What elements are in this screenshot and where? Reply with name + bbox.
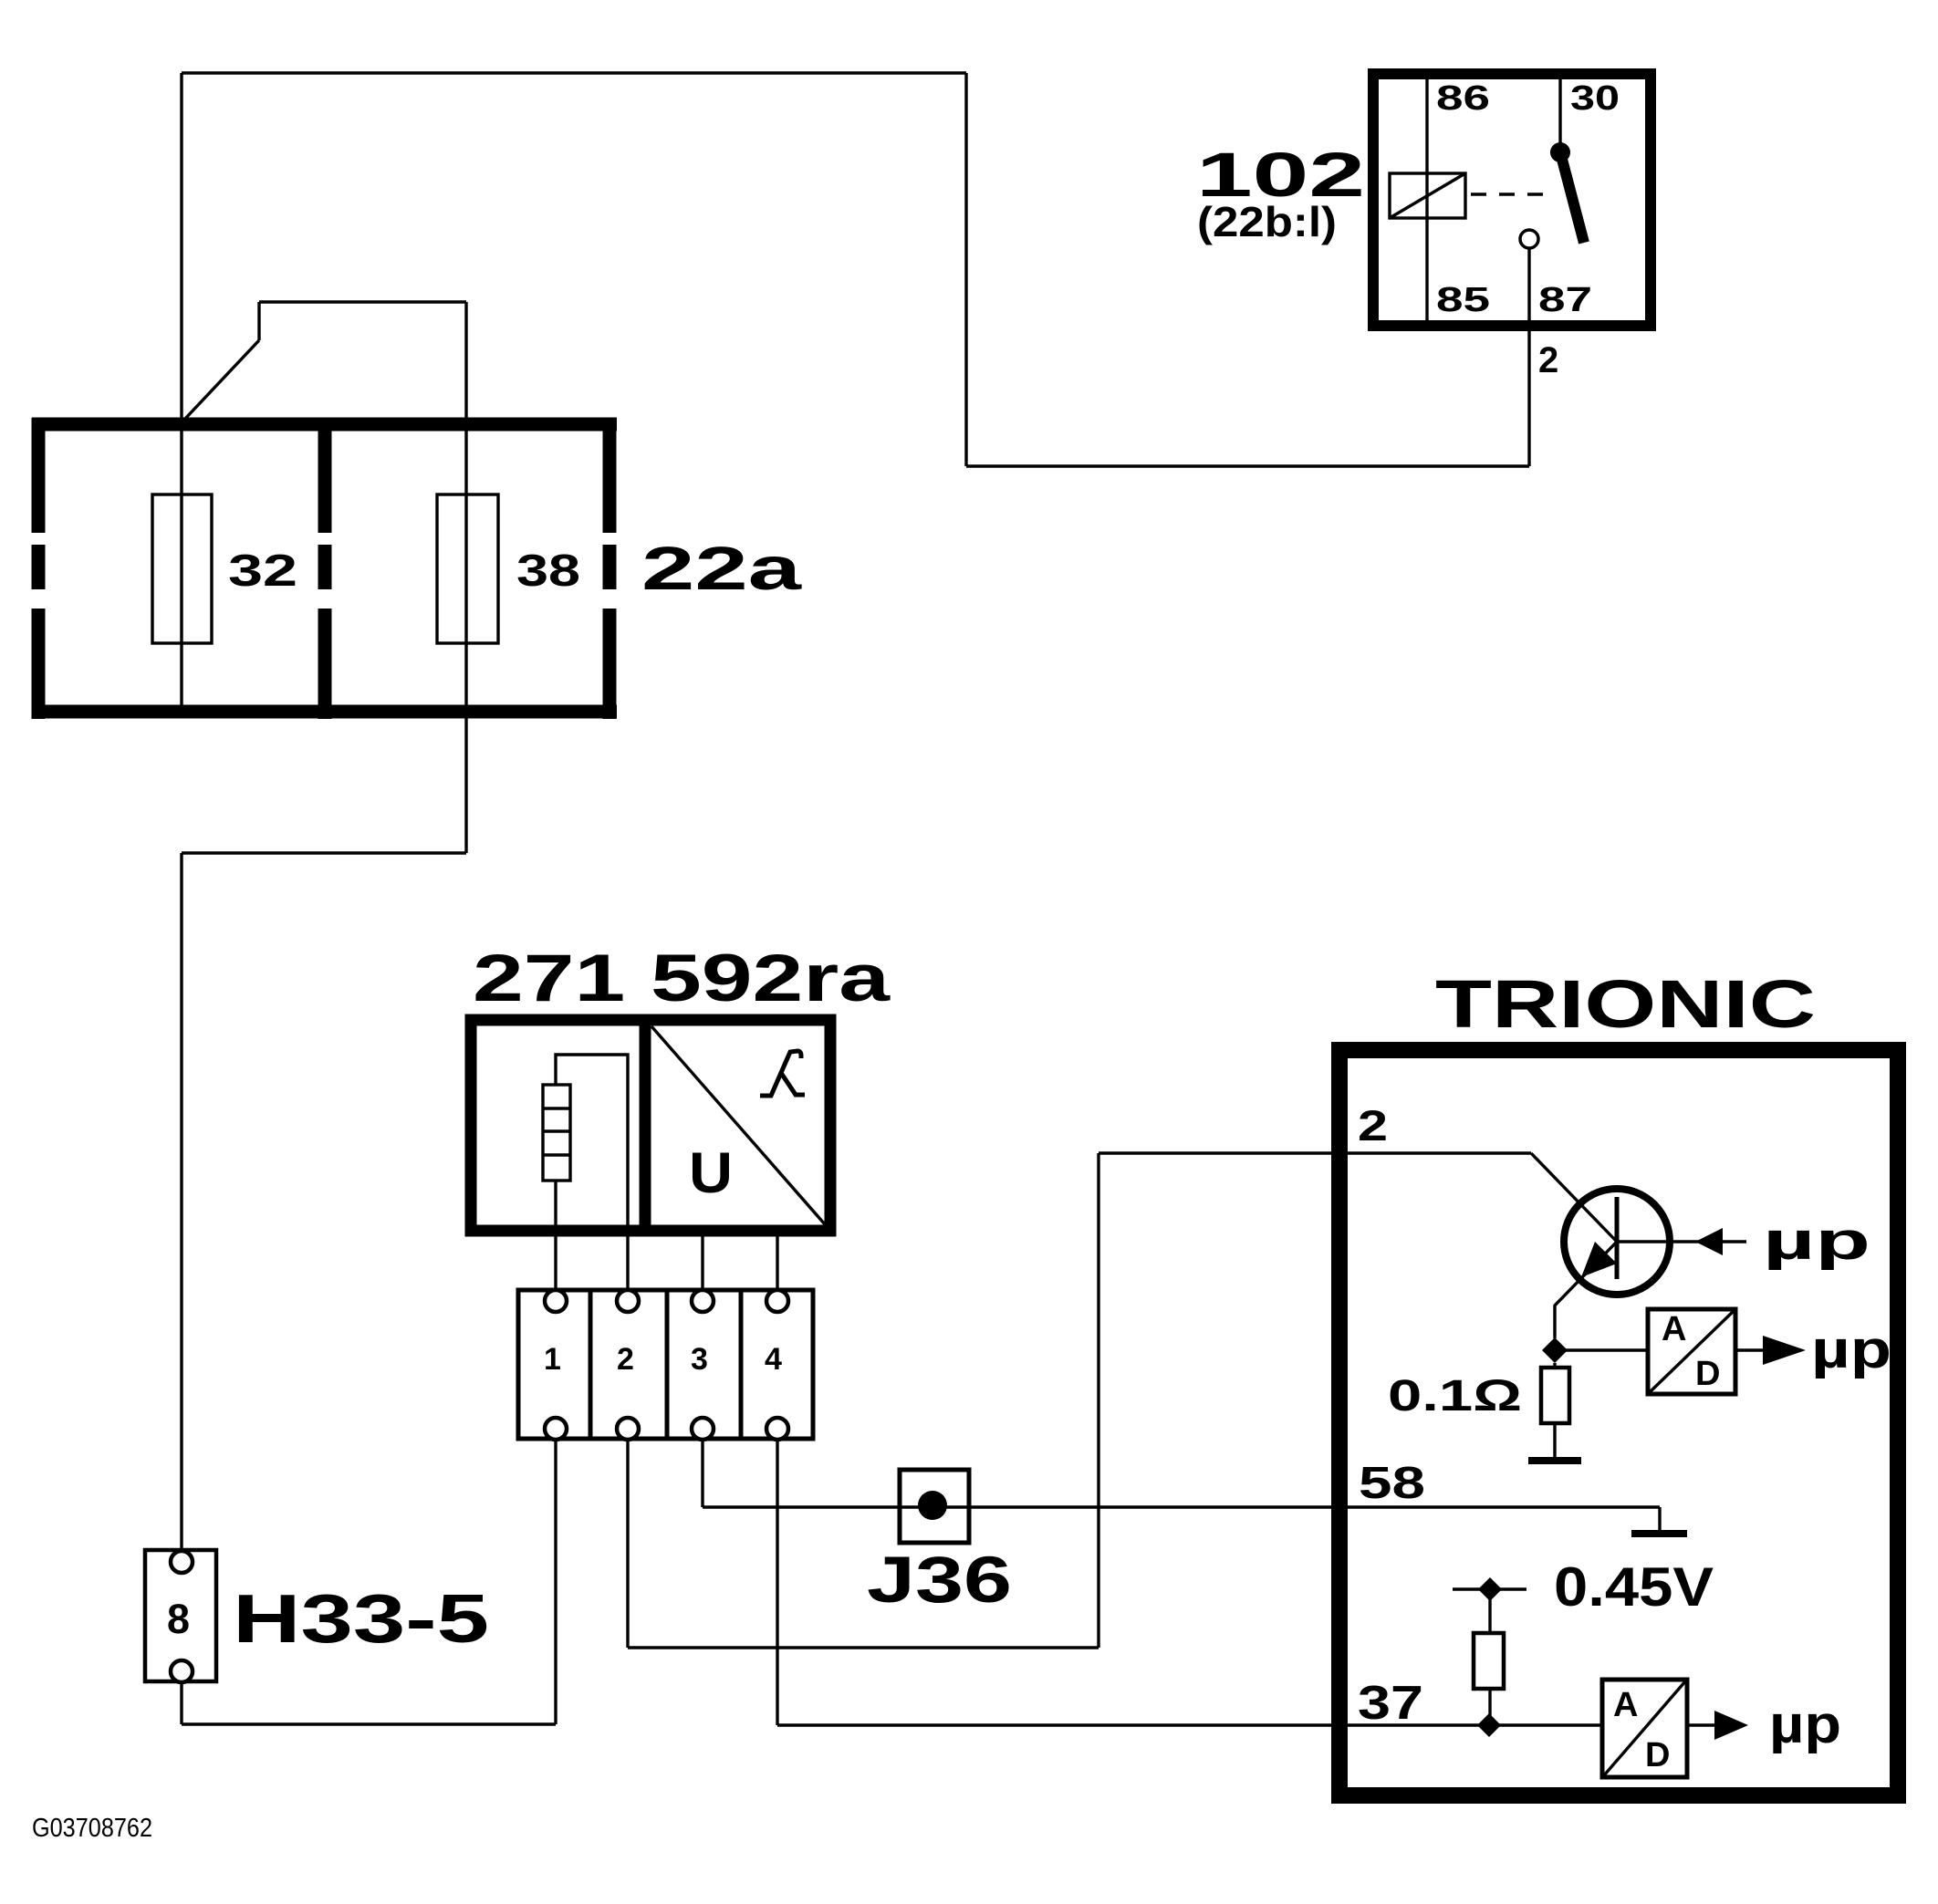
label J36 [867, 1545, 1012, 1617]
pull-up resistor [1474, 1633, 1504, 1689]
relay actuator dashed link [1471, 192, 1555, 195]
fuse 32 [152, 494, 212, 643]
wire junction to shunt resistor [1553, 1363, 1556, 1368]
wire collector diagonal [1531, 1153, 1617, 1242]
A/D 2 label A [1613, 1686, 1638, 1724]
svg-text:4: 4 [765, 1342, 782, 1377]
base arrow from microprocessor [1695, 1228, 1723, 1255]
svg-text:2: 2 [1358, 1101, 1388, 1150]
wire sensor pin3 stub [701, 1232, 703, 1290]
svg-text:µp: µp [1811, 1320, 1891, 1379]
svg-text:U: U [689, 1141, 733, 1205]
wire sensor heater pin1 [554, 1181, 557, 1290]
splice J36 junction dot [918, 1491, 947, 1520]
figure id G03708762 [32, 1814, 152, 1843]
wire fuse38 feed horizontal [259, 300, 466, 303]
wire A/D 1 output [1737, 1348, 1765, 1351]
wire into TRIONIC pin 2 [1099, 1151, 1531, 1154]
connector block 1-4 [518, 1290, 813, 1439]
wire 0.45V to pull-up resistor [1488, 1589, 1491, 1633]
A/D 1 label D [1695, 1355, 1720, 1393]
relay switch pivot [1550, 142, 1570, 162]
svg-text:30: 30 [1570, 79, 1620, 118]
wire fusebox output horizontal [182, 851, 466, 854]
A/D converter U2 [1648, 1309, 1735, 1394]
wire connector pin1 riser [554, 1440, 557, 1724]
wire diagonal into fusebox [183, 340, 259, 421]
oxygen sensor divider [640, 1020, 651, 1231]
svg-text:µp: µp [1763, 1212, 1870, 1271]
svg-text:87: 87 [1538, 281, 1592, 319]
svg-text:TRIONIC: TRIONIC [1435, 966, 1816, 1042]
relay pin label 2 [1538, 340, 1558, 380]
connector pin label 4 [765, 1342, 782, 1377]
A/D converter U3 [1602, 1680, 1687, 1777]
TRIONIC pin label 58 [1359, 1459, 1425, 1508]
label 32 [228, 546, 297, 596]
connector H33-5 box [145, 1550, 216, 1681]
svg-text:38: 38 [516, 546, 580, 596]
connector pin 4 top terminal [766, 1290, 788, 1312]
svg-text:D: D [1695, 1355, 1720, 1393]
oxygen sensor box [471, 1020, 830, 1231]
connector pin label 3 [691, 1342, 708, 1377]
svg-text:1: 1 [544, 1342, 561, 1377]
heater element [543, 1085, 570, 1181]
transistor emitter lead [1555, 1242, 1617, 1338]
connector pin 4 bottom terminal [766, 1418, 788, 1440]
fuse 38 [437, 494, 498, 643]
label 102 [1196, 140, 1365, 210]
TRIONIC pin label 37 [1358, 1677, 1423, 1730]
svg-text:0.1Ω: 0.1Ω [1388, 1372, 1522, 1420]
transistor base lead [1617, 1240, 1746, 1243]
splice J36 box [900, 1470, 969, 1543]
connector pin 3 bottom terminal [692, 1418, 714, 1440]
label microprocessor base [1763, 1212, 1870, 1271]
wire horizontal to relay pin 2 [966, 464, 1529, 467]
fuse holder 22a box [32, 418, 617, 719]
wire relay pin 87/2 drop [1527, 249, 1530, 466]
connector pin 3 top terminal [692, 1290, 714, 1312]
svg-text:D: D [1645, 1736, 1670, 1774]
label H33-5 [233, 1580, 489, 1657]
relay coil supply line 86-85 [1425, 79, 1428, 320]
relay pin label 87 [1538, 281, 1592, 319]
svg-text:85: 85 [1436, 281, 1490, 319]
svg-text:271 592ra: 271 592ra [473, 942, 891, 1015]
lambda symbol [760, 1051, 805, 1096]
transistor Q1 [1564, 1189, 1670, 1295]
connector pin 1 top terminal [545, 1290, 567, 1312]
H33-5 bottom terminal [171, 1660, 193, 1682]
relay switch arm [1560, 152, 1584, 243]
svg-text:H33-5: H33-5 [233, 1580, 489, 1657]
resistor 0.1 ohm [1541, 1368, 1569, 1423]
wire resistor to pin 37 node [1488, 1689, 1491, 1725]
label 271 592ra [473, 942, 891, 1015]
relay pin label 85 [1436, 281, 1490, 319]
ground pin 58 [1631, 1530, 1687, 1537]
wire fuse38 feed bend [257, 302, 260, 340]
junction node pin 37 [1477, 1713, 1501, 1737]
wire 58 ground stub [1658, 1507, 1661, 1532]
wire fuse 38 vertical [464, 302, 467, 853]
svg-text:2: 2 [1538, 340, 1558, 380]
label TRIONIC [1435, 966, 1816, 1042]
emitter arrowhead [1581, 1242, 1617, 1277]
H33-5 top terminal [171, 1551, 193, 1573]
wire pin2 horizontal run [628, 1646, 1099, 1649]
svg-text:2: 2 [617, 1342, 634, 1377]
label (22b:l) [1197, 198, 1337, 245]
ground shunt resistor [1528, 1457, 1581, 1464]
svg-text:A: A [1662, 1310, 1686, 1348]
TRIONIC ECU box [1339, 1050, 1898, 1795]
svg-text:J36: J36 [867, 1545, 1012, 1617]
wire drop to H33-5 [180, 853, 182, 1551]
connector pin label 1 [544, 1342, 561, 1377]
wire connector pin3 drop [701, 1440, 703, 1507]
relay pin label 86 [1436, 79, 1490, 118]
wire connector pin2 drop [626, 1440, 629, 1648]
wire resistor to ground [1553, 1423, 1556, 1459]
relay coil [1390, 173, 1465, 218]
wire A/D 2 output [1689, 1723, 1716, 1726]
label U [689, 1141, 733, 1205]
H33-5 pin label 8 [167, 1596, 190, 1642]
wire right drop from top rail [964, 73, 967, 466]
wire H33-5 bottom drop [180, 1682, 182, 1724]
output arrow 2 to microprocessor [1714, 1711, 1748, 1740]
svg-text:58: 58 [1359, 1459, 1425, 1508]
sensor cell diagonal [651, 1026, 825, 1224]
svg-text:µp: µp [1769, 1695, 1841, 1754]
svg-text:8: 8 [167, 1596, 190, 1642]
wire pin2 riser to TRIONIC 2 [1097, 1153, 1099, 1648]
connector pin 2 top terminal [617, 1290, 639, 1312]
relay 102 box [1373, 74, 1651, 326]
wire pin3 to TRIONIC 58 through J36 [703, 1505, 1660, 1508]
wire connector pin4 drop [776, 1440, 778, 1725]
label microprocessor A/D 1 [1811, 1320, 1891, 1379]
connector pin 1 bottom terminal [545, 1418, 567, 1440]
svg-text:0.45V: 0.45V [1554, 1556, 1714, 1618]
A/D 1 label A [1662, 1310, 1686, 1348]
svg-text:86: 86 [1436, 79, 1490, 118]
label 0.1 ohm [1388, 1372, 1522, 1420]
wire H33-5 to connector pin1 horizontal [182, 1722, 556, 1725]
wire fuse 32 vertical [180, 73, 182, 712]
junction node emitter/shunt [1542, 1337, 1568, 1363]
connector pin 2 bottom terminal [617, 1418, 639, 1440]
label 38 [516, 546, 580, 596]
wire relay87 feed top rail [182, 71, 966, 74]
output arrow to microprocessor [1763, 1336, 1806, 1365]
reference supply tick 0.45V [1453, 1587, 1526, 1590]
relay contact 87 [1520, 230, 1538, 248]
label microprocessor A/D 2 [1769, 1695, 1841, 1754]
wire pin4 to TRIONIC 37 [777, 1723, 1602, 1726]
svg-text:3: 3 [691, 1342, 708, 1377]
label 0.45V [1554, 1556, 1714, 1618]
svg-text:37: 37 [1358, 1677, 1423, 1730]
svg-text:G03708762: G03708762 [32, 1814, 152, 1843]
label 22a [641, 535, 802, 603]
svg-text:(22b:l): (22b:l) [1197, 198, 1337, 245]
wire junction to A/D 1 [1555, 1348, 1648, 1351]
relay pin 30 line [1558, 79, 1561, 152]
svg-text:A: A [1613, 1686, 1638, 1724]
svg-text:32: 32 [228, 546, 297, 596]
connector pin label 2 [617, 1342, 634, 1377]
A/D 2 label D [1645, 1736, 1670, 1774]
relay pin label 30 [1570, 79, 1620, 118]
junction node 0.45V [1478, 1577, 1502, 1601]
wire sensor pin4 stub [776, 1232, 778, 1290]
TRIONIC pin label 2 [1358, 1101, 1388, 1150]
svg-text:22a: 22a [641, 535, 802, 603]
wire sensor heater loop to pin2 [556, 1055, 628, 1290]
